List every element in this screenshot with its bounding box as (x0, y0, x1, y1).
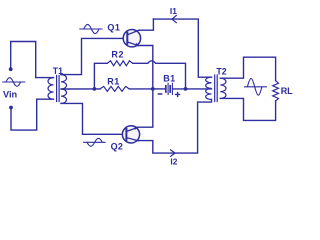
resistor RL (273, 81, 279, 101)
wire Q1 collector to I1 loop (139, 19, 153, 30)
transformer T2 primary winding (206, 77, 212, 99)
current arrow I2 (171, 150, 175, 156)
battery B1 (153, 83, 212, 94)
node A (center-tap junction) (93, 87, 97, 91)
wire I1 top run (153, 19, 211, 77)
wire node A up to R2 (94, 63, 107, 89)
svg-text:T2: T2 (216, 66, 226, 76)
svg-text:I2: I2 (170, 157, 177, 167)
input terminal bottom (9, 106, 13, 110)
transformer T1 core (57, 76, 60, 102)
wire T1 center tap to node A (61, 88, 100, 90)
AC waveform at Q1 base (80, 24, 102, 33)
wire input top to T1 primary top (11, 42, 54, 78)
svg-text:R2: R2 (111, 50, 124, 60)
svg-text:R1: R1 (107, 76, 120, 86)
AC waveform at Q2 base (inverted) (84, 138, 106, 146)
current arrow I1 (172, 16, 176, 23)
svg-text:Vin: Vin (3, 90, 18, 100)
wire Q1 emitter down to node B (139, 46, 153, 89)
transformer T2 core (215, 75, 218, 102)
svg-text:Q1: Q1 (107, 23, 120, 33)
AC output waveform symbol (245, 78, 267, 95)
wire Q2 emitter up to node B (138, 89, 153, 127)
wire input bottom to T1 primary bottom (11, 99, 54, 130)
resistor R2 (107, 61, 132, 66)
transistor Q2 (122, 126, 139, 143)
input terminal top (9, 67, 13, 71)
AC input waveform symbol (3, 78, 25, 87)
wire Q2 collector to I2 bottom run (138, 100, 212, 154)
svg-text:Q2: Q2 (111, 141, 124, 151)
battery minus label (158, 93, 161, 95)
wire T1 secondary bottom to Q2 base (61, 103, 122, 134)
svg-text:RL: RL (281, 86, 293, 96)
svg-text:I1: I1 (170, 6, 177, 16)
svg-text:B1: B1 (163, 74, 175, 84)
wire T1 secondary top to Q1 base (61, 38, 123, 74)
wire T2 secondary bottom to load loop (220, 98, 275, 120)
wire R2 right with hop over emitter line (133, 61, 186, 89)
node B (common emitter junction) (151, 87, 155, 91)
transformer T1 secondary winding (61, 75, 67, 104)
wire T2 secondary top to load loop (220, 57, 275, 80)
wire R1 to node B (129, 88, 153, 90)
transformer T1 primary winding (48, 78, 54, 100)
transformer T2 secondary winding (220, 78, 226, 98)
transistor Q1 (123, 30, 140, 47)
node C (battery to R2/T2 junction) (184, 87, 188, 91)
resistor R1 (100, 86, 129, 91)
battery plus label (176, 92, 180, 96)
